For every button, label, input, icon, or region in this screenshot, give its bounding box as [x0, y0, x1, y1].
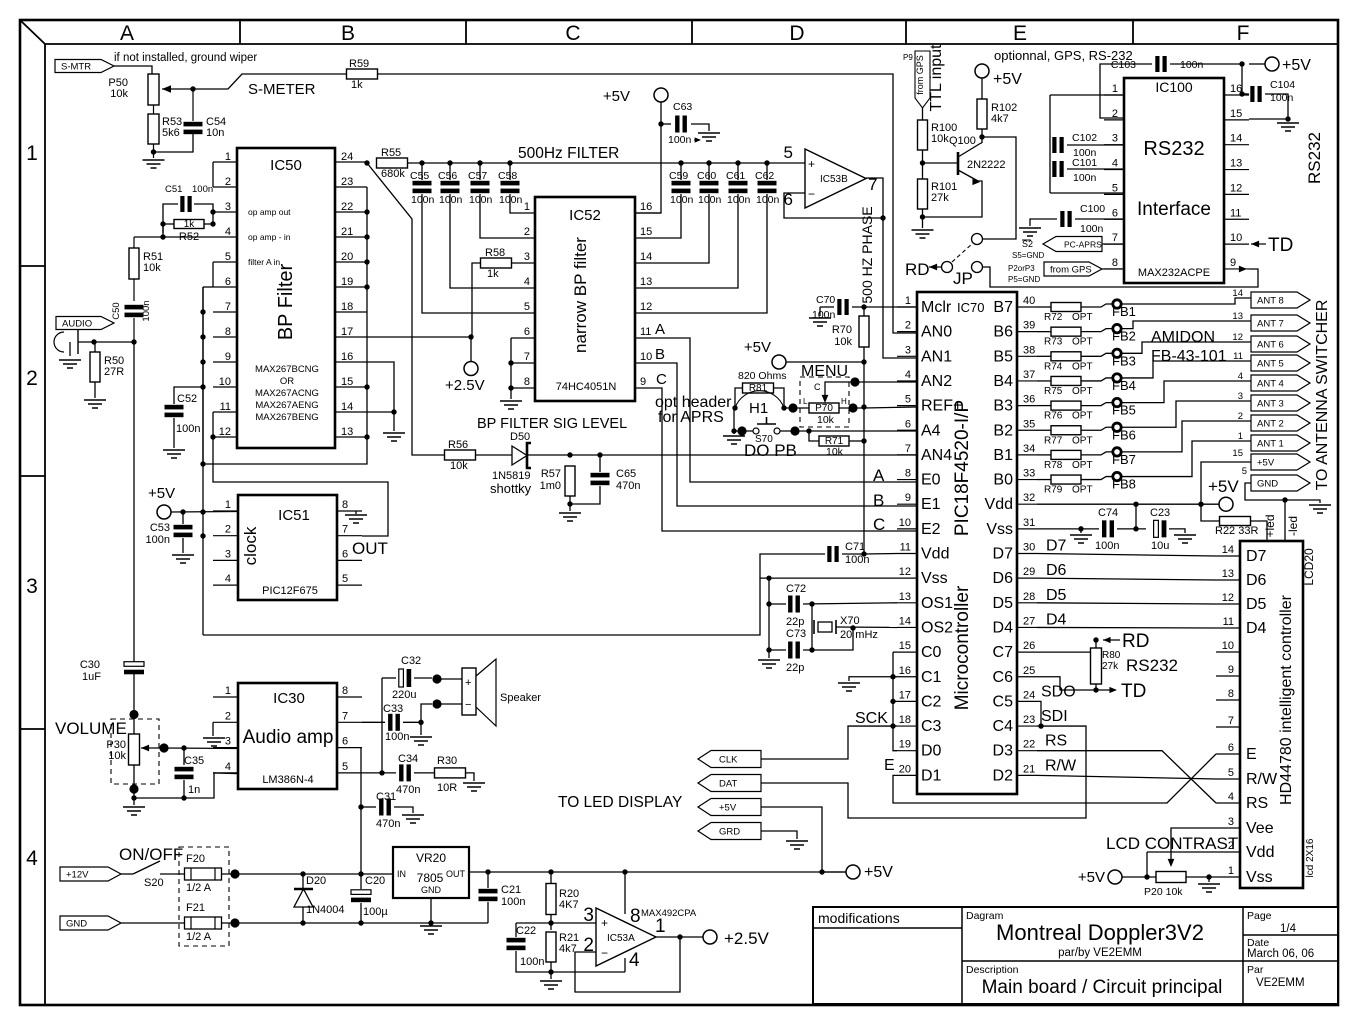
svg-text:20 mHz: 20 mHz: [840, 629, 878, 641]
svg-text:ANT 5: ANT 5: [1257, 359, 1284, 370]
svg-text:E1: E1: [921, 496, 941, 513]
svg-text:4K7: 4K7: [559, 899, 579, 911]
svg-text:28: 28: [1023, 591, 1035, 603]
svg-text:R57: R57: [541, 468, 561, 480]
svg-text:6: 6: [905, 418, 911, 430]
svg-text:ANT 2: ANT 2: [1257, 419, 1284, 430]
svg-text:C103: C103: [1111, 59, 1136, 71]
svg-text:FB5: FB5: [1112, 403, 1136, 418]
svg-text:17: 17: [341, 326, 353, 338]
svg-text:TO ANTENNA SWITCHER: TO ANTENNA SWITCHER: [1314, 300, 1331, 491]
svg-text:C21: C21: [501, 884, 521, 896]
svg-text:4: 4: [26, 847, 38, 870]
svg-text:100n: 100n: [1095, 540, 1119, 552]
svg-text:9: 9: [1230, 257, 1236, 269]
svg-text:C56: C56: [438, 170, 457, 182]
svg-text:1: 1: [225, 685, 231, 697]
svg-text:−: −: [465, 699, 471, 711]
svg-text:B: B: [655, 346, 665, 363]
svg-text:470n: 470n: [376, 818, 400, 830]
svg-text:24: 24: [1023, 689, 1035, 701]
svg-text:R76: R76: [1044, 411, 1063, 422]
svg-text:March 06, 06: March 06, 06: [1247, 948, 1314, 960]
svg-text:OPT: OPT: [1072, 485, 1093, 496]
svg-text:VE2EMM: VE2EMM: [1256, 977, 1305, 989]
svg-text:+: +: [808, 157, 815, 171]
svg-text:100n: 100n: [845, 554, 869, 566]
svg-text:OPT: OPT: [1072, 460, 1093, 471]
svg-text:8: 8: [342, 685, 348, 697]
svg-text:LCD CONTRAST: LCD CONTRAST: [1106, 834, 1238, 853]
svg-text:C50: C50: [111, 302, 122, 319]
svg-text:E: E: [884, 757, 895, 774]
svg-text:4: 4: [225, 573, 231, 585]
svg-text:8: 8: [342, 499, 348, 511]
svg-text:DO PB: DO PB: [744, 441, 797, 460]
svg-text:for APRS: for APRS: [658, 409, 724, 426]
svg-text:C2: C2: [921, 693, 942, 710]
svg-text:C104: C104: [1270, 79, 1295, 91]
svg-text:MAX267AENG: MAX267AENG: [255, 400, 318, 411]
svg-text:+led: +led: [1263, 514, 1277, 537]
svg-text:F: F: [1237, 22, 1250, 45]
svg-text:C: C: [814, 382, 821, 392]
svg-text:B7: B7: [993, 299, 1013, 316]
svg-text:1/4: 1/4: [1280, 923, 1297, 935]
svg-text:1/2 A: 1/2 A: [186, 931, 212, 943]
svg-text:10n: 10n: [206, 127, 224, 139]
svg-text:1: 1: [1228, 865, 1234, 877]
svg-text:C6: C6: [993, 669, 1014, 686]
svg-text:13: 13: [341, 426, 353, 438]
svg-text:100n: 100n: [812, 309, 836, 321]
svg-text:220u: 220u: [392, 689, 416, 701]
svg-text:29: 29: [1023, 566, 1035, 578]
svg-text:+5V: +5V: [1282, 57, 1311, 74]
svg-text:10: 10: [1230, 232, 1242, 244]
svg-text:RS232: RS232: [1126, 656, 1178, 675]
svg-text:11: 11: [220, 401, 231, 413]
svg-text:10k: 10k: [826, 446, 844, 458]
svg-text:2: 2: [524, 226, 530, 238]
svg-text:100n: 100n: [192, 184, 213, 195]
svg-text:IC51: IC51: [278, 507, 310, 524]
svg-text:9: 9: [225, 351, 231, 363]
svg-text:D4: D4: [993, 619, 1014, 636]
svg-text:5: 5: [905, 394, 911, 406]
svg-text:B3: B3: [993, 398, 1013, 415]
svg-text:100µ: 100µ: [363, 906, 388, 918]
svg-text:100n: 100n: [1080, 223, 1104, 235]
svg-text:10u: 10u: [1151, 540, 1169, 552]
svg-text:OR: OR: [280, 376, 294, 387]
svg-text:MAX492CPA: MAX492CPA: [641, 908, 697, 919]
svg-text:100n: 100n: [756, 194, 780, 206]
svg-text:6: 6: [524, 326, 530, 338]
svg-text:100n: 100n: [411, 194, 435, 206]
svg-text:+5V: +5V: [744, 339, 771, 356]
svg-text:C23: C23: [1150, 507, 1170, 519]
svg-text:22: 22: [341, 201, 353, 213]
svg-text:C51: C51: [165, 184, 182, 195]
svg-text:JP: JP: [953, 269, 973, 288]
svg-text:1m0: 1m0: [540, 480, 561, 492]
svg-text:B2: B2: [993, 422, 1013, 439]
svg-text:H: H: [841, 397, 847, 406]
svg-text:C57: C57: [468, 170, 487, 182]
svg-text:1: 1: [655, 916, 666, 937]
svg-text:3: 3: [905, 344, 911, 356]
svg-text:5: 5: [342, 761, 348, 773]
svg-text:3: 3: [524, 251, 530, 263]
svg-text:12: 12: [1230, 182, 1242, 194]
svg-text:C20: C20: [365, 875, 385, 887]
svg-text:-led: -led: [1286, 516, 1300, 536]
svg-text:6: 6: [1112, 207, 1118, 219]
svg-text:OUT: OUT: [352, 539, 388, 558]
svg-text:3: 3: [583, 905, 594, 926]
svg-text:op amp out: op amp out: [248, 207, 291, 217]
svg-text:Audio amp: Audio amp: [243, 727, 334, 748]
svg-text:19: 19: [341, 276, 353, 288]
svg-text:7805: 7805: [417, 871, 444, 885]
svg-text:AUDIO: AUDIO: [62, 319, 92, 330]
svg-text:B6: B6: [993, 324, 1013, 341]
svg-text:38: 38: [1023, 344, 1035, 356]
svg-text:R77: R77: [1044, 435, 1063, 446]
svg-text:8: 8: [1112, 257, 1118, 269]
svg-text:14: 14: [341, 401, 353, 413]
svg-text:C0: C0: [921, 644, 942, 661]
svg-text:14: 14: [899, 615, 911, 627]
svg-text:C3: C3: [921, 718, 942, 735]
svg-text:16: 16: [341, 351, 353, 363]
svg-text:A: A: [873, 466, 885, 485]
svg-text:36: 36: [1023, 394, 1035, 406]
svg-text:filter A in: filter A in: [248, 257, 280, 267]
svg-text:ANT 6: ANT 6: [1257, 340, 1284, 351]
svg-text:RD: RD: [905, 260, 930, 279]
svg-text:MAX232ACPE: MAX232ACPE: [1138, 267, 1210, 279]
svg-text:C31: C31: [376, 791, 396, 803]
svg-text:7: 7: [1228, 715, 1234, 727]
svg-text:D5: D5: [993, 595, 1014, 612]
svg-text:OPT: OPT: [1072, 361, 1093, 372]
svg-text:MAX267BENG: MAX267BENG: [255, 412, 318, 423]
svg-text:31: 31: [1023, 517, 1035, 529]
svg-text:100n: 100n: [385, 731, 409, 743]
svg-text:27R: 27R: [104, 366, 124, 378]
svg-text:P5=GND: P5=GND: [1008, 275, 1040, 284]
svg-text:15: 15: [341, 376, 353, 388]
svg-text:C101: C101: [1072, 157, 1097, 169]
svg-text:ANT 3: ANT 3: [1257, 399, 1284, 410]
svg-text:32: 32: [1023, 492, 1035, 504]
svg-text:2: 2: [1238, 411, 1243, 422]
svg-text:C35: C35: [184, 755, 204, 767]
svg-text:74HC4051N: 74HC4051N: [556, 381, 617, 393]
svg-text:11: 11: [640, 326, 651, 338]
svg-text:+5V: +5V: [1208, 477, 1239, 496]
svg-text:680k: 680k: [381, 168, 405, 180]
svg-text:8: 8: [905, 468, 911, 480]
svg-text:5: 5: [342, 573, 348, 585]
svg-text:R70: R70: [832, 324, 852, 336]
svg-text:clock: clock: [241, 526, 260, 565]
svg-text:AN0: AN0: [921, 324, 952, 341]
svg-text:18: 18: [341, 301, 353, 313]
svg-text:22p: 22p: [786, 616, 804, 628]
svg-text:C30: C30: [80, 659, 100, 671]
svg-text:470n: 470n: [616, 480, 640, 492]
svg-text:AN1: AN1: [921, 348, 952, 365]
svg-text:10k: 10k: [931, 133, 949, 145]
svg-text:par/by VE2EMM: par/by VE2EMM: [1058, 947, 1142, 959]
svg-text:SDO: SDO: [1041, 683, 1076, 700]
svg-text:R30: R30: [437, 755, 457, 767]
svg-text:10k: 10k: [817, 414, 835, 426]
svg-text:FB4: FB4: [1112, 378, 1136, 393]
svg-text:9: 9: [1228, 664, 1234, 676]
svg-text:op amp - in: op amp - in: [248, 232, 291, 242]
svg-text:B4: B4: [993, 373, 1013, 390]
svg-text:A: A: [655, 321, 665, 338]
svg-text:100n: 100n: [520, 956, 544, 968]
svg-text:5k6: 5k6: [162, 127, 180, 139]
svg-text:VR20: VR20: [416, 851, 446, 865]
svg-text:ANT 8: ANT 8: [1257, 296, 1284, 307]
svg-text:6: 6: [1228, 742, 1234, 754]
svg-text:S5=GND: S5=GND: [1012, 251, 1044, 260]
svg-text:−: −: [601, 946, 608, 960]
svg-text:R/W: R/W: [1246, 771, 1278, 788]
svg-text:Vss: Vss: [1246, 869, 1273, 886]
svg-text:RS: RS: [1246, 795, 1268, 812]
svg-text:10k: 10k: [450, 460, 468, 472]
svg-text:11: 11: [1223, 616, 1234, 628]
svg-text:34: 34: [1023, 443, 1035, 455]
svg-text:D6: D6: [1046, 562, 1067, 579]
svg-text:C102: C102: [1072, 132, 1097, 144]
svg-text:R78: R78: [1044, 460, 1063, 471]
svg-text:R80: R80: [1102, 650, 1121, 661]
svg-text:C5: C5: [993, 693, 1014, 710]
svg-text:C: C: [565, 22, 580, 45]
svg-text:D7: D7: [1046, 538, 1067, 555]
svg-text:1N4004: 1N4004: [306, 904, 345, 916]
svg-text:7: 7: [342, 524, 348, 536]
svg-text:R/W: R/W: [1045, 757, 1077, 774]
svg-text:+: +: [601, 916, 608, 930]
svg-text:LM386N-4: LM386N-4: [262, 774, 313, 786]
svg-text:7: 7: [905, 443, 911, 455]
svg-text:B5: B5: [993, 348, 1013, 365]
svg-text:D6: D6: [1246, 572, 1267, 589]
svg-text:23: 23: [1023, 714, 1035, 726]
svg-text:C100: C100: [1080, 203, 1105, 215]
svg-text:TD: TD: [1268, 235, 1293, 256]
svg-text:shottky: shottky: [490, 481, 532, 496]
svg-text:Description: Description: [966, 964, 1019, 976]
svg-text:5: 5: [1242, 466, 1247, 477]
svg-text:4k7: 4k7: [991, 113, 1009, 125]
svg-text:CLK: CLK: [719, 755, 738, 766]
svg-text:11: 11: [900, 542, 911, 554]
svg-text:D: D: [789, 22, 804, 45]
svg-text:100n: 100n: [698, 194, 722, 206]
svg-text:A4: A4: [921, 422, 941, 439]
svg-text:16: 16: [640, 201, 652, 213]
svg-text:D6: D6: [993, 570, 1014, 587]
svg-text:8: 8: [1228, 688, 1234, 700]
svg-text:7: 7: [524, 351, 530, 363]
svg-text:C58: C58: [498, 170, 517, 182]
svg-text:SCK: SCK: [855, 710, 888, 727]
svg-text:1: 1: [524, 201, 530, 213]
svg-text:35: 35: [1023, 418, 1035, 430]
svg-text:D5: D5: [1046, 587, 1067, 604]
svg-text:Interface: Interface: [1137, 199, 1211, 220]
svg-text:4: 4: [225, 761, 231, 773]
svg-text:B0: B0: [993, 472, 1013, 489]
svg-text:C65: C65: [616, 468, 636, 480]
svg-text:5: 5: [784, 143, 793, 162]
svg-text:16: 16: [899, 665, 911, 677]
svg-text:4: 4: [1112, 158, 1118, 170]
svg-text:B1: B1: [993, 447, 1013, 464]
svg-text:2: 2: [225, 710, 231, 722]
svg-text:5: 5: [524, 301, 530, 313]
svg-text:C63: C63: [673, 101, 692, 113]
svg-text:D2: D2: [993, 767, 1014, 784]
svg-text:modifications: modifications: [818, 910, 900, 926]
svg-text:23: 23: [341, 176, 353, 188]
svg-text:1: 1: [26, 142, 38, 165]
svg-text:18: 18: [899, 714, 911, 726]
svg-text:−: −: [808, 187, 815, 201]
svg-text:C60: C60: [697, 170, 716, 182]
svg-text:15: 15: [640, 226, 652, 238]
svg-text:GRD: GRD: [719, 827, 740, 838]
svg-text:PIC12F675: PIC12F675: [262, 585, 318, 597]
svg-text:5: 5: [225, 251, 231, 263]
svg-text:14: 14: [1232, 288, 1243, 299]
svg-text:+5V: +5V: [148, 485, 175, 502]
svg-text:B: B: [341, 22, 355, 45]
svg-text:3: 3: [26, 575, 38, 598]
svg-text:13: 13: [1222, 568, 1234, 580]
svg-text:C52: C52: [177, 393, 197, 405]
svg-text:10: 10: [1222, 640, 1234, 652]
svg-text:27k: 27k: [931, 192, 949, 204]
svg-text:10: 10: [219, 376, 231, 388]
svg-text:L: L: [803, 397, 808, 406]
svg-text:A: A: [120, 22, 134, 45]
svg-text:PIC18F4520-I/P: PIC18F4520-I/P: [952, 400, 973, 536]
svg-text:8: 8: [225, 326, 231, 338]
svg-text:11: 11: [1233, 351, 1243, 362]
svg-text:1: 1: [1112, 83, 1118, 95]
svg-text:+5V: +5V: [1078, 869, 1105, 886]
svg-text:C61: C61: [726, 170, 745, 182]
svg-text:3: 3: [225, 548, 231, 560]
svg-text:P2orP3: P2orP3: [1008, 264, 1035, 273]
svg-text:27k: 27k: [1102, 661, 1119, 672]
svg-text:E0: E0: [921, 472, 941, 489]
svg-text:lcd 2X16: lcd 2X16: [1305, 838, 1316, 877]
svg-text:12: 12: [640, 301, 652, 313]
svg-text:C33: C33: [383, 703, 403, 715]
svg-text:11: 11: [1230, 207, 1241, 219]
svg-text:5: 5: [1228, 767, 1234, 779]
svg-text:C73: C73: [786, 628, 806, 640]
svg-text:500Hz FILTER: 500Hz FILTER: [518, 145, 619, 162]
svg-text:PC-APRS: PC-APRS: [1064, 240, 1102, 250]
svg-text:20: 20: [341, 251, 353, 263]
svg-text:DAT: DAT: [719, 779, 737, 790]
svg-text:Mclr: Mclr: [921, 299, 952, 316]
svg-text:15: 15: [899, 640, 911, 652]
svg-text:100n: 100n: [499, 194, 523, 206]
svg-text:D7: D7: [993, 546, 1014, 563]
svg-text:Q100: Q100: [949, 135, 976, 147]
svg-text:IN: IN: [397, 869, 406, 879]
svg-text:Vee: Vee: [1246, 820, 1274, 837]
svg-text:S20: S20: [144, 877, 164, 889]
svg-text:20: 20: [899, 763, 911, 775]
svg-text:RD: RD: [1122, 631, 1149, 652]
svg-text:GND: GND: [1257, 479, 1278, 490]
svg-text:IC50: IC50: [270, 157, 302, 174]
svg-text:E: E: [1013, 22, 1027, 45]
svg-text:BP FILTER SIG LEVEL: BP FILTER SIG LEVEL: [477, 416, 627, 432]
svg-text:D0: D0: [921, 743, 942, 760]
svg-text:22: 22: [1023, 739, 1035, 751]
svg-text:19: 19: [899, 739, 911, 751]
svg-text:C71: C71: [845, 541, 865, 553]
svg-text:B: B: [873, 491, 884, 510]
svg-text:4: 4: [225, 226, 231, 238]
svg-text:E: E: [1246, 746, 1257, 763]
svg-text:C7: C7: [993, 644, 1014, 661]
svg-text:37: 37: [1023, 369, 1035, 381]
svg-text:4: 4: [1228, 791, 1234, 803]
svg-text:IC30: IC30: [273, 690, 305, 707]
svg-text:GND: GND: [421, 885, 442, 895]
svg-text:P70: P70: [815, 403, 833, 414]
svg-text:17: 17: [899, 689, 911, 701]
svg-text:D1: D1: [921, 767, 942, 784]
svg-text:R59: R59: [349, 58, 369, 70]
svg-text:MENU: MENU: [801, 363, 848, 380]
svg-text:D5: D5: [1246, 596, 1267, 613]
svg-text:1k: 1k: [487, 268, 499, 280]
svg-text:C32: C32: [401, 655, 421, 667]
svg-text:FB-43-101: FB-43-101: [1151, 348, 1227, 365]
svg-text:R75: R75: [1044, 386, 1063, 397]
svg-text:IC52: IC52: [569, 207, 601, 224]
svg-text:FB3: FB3: [1112, 353, 1136, 368]
svg-text:Microcontroller: Microcontroller: [952, 585, 973, 710]
svg-text:100n: 100n: [176, 423, 200, 435]
svg-text:10: 10: [899, 517, 911, 529]
svg-text:12: 12: [899, 566, 911, 578]
svg-text:C70: C70: [816, 294, 835, 306]
svg-text:ANT 1: ANT 1: [1257, 439, 1284, 450]
svg-text:OS1: OS1: [921, 595, 953, 612]
svg-text:100n: 100n: [439, 194, 463, 206]
svg-text:2: 2: [26, 367, 38, 390]
